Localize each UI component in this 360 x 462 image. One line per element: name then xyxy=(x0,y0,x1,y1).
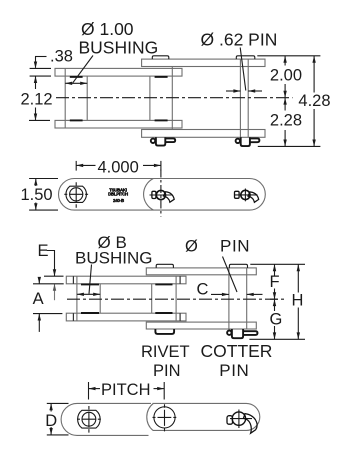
extension line plate top xyxy=(30,67,51,69)
svg-text:2.28: 2.28 xyxy=(270,111,302,129)
bushing B1 top bar xyxy=(155,283,172,285)
A lower arrow shaft xyxy=(38,314,40,332)
pin2 vertical crosshair xyxy=(164,404,166,431)
svg-text:4.000: 4.000 xyxy=(98,159,139,177)
pin3 vertical crosshair xyxy=(238,410,240,429)
svg-text:COTTER: COTTER xyxy=(201,341,273,361)
arrowhead pitch left xyxy=(89,387,96,390)
arrowhead 1.50 down xyxy=(34,203,37,210)
H lower shaft xyxy=(297,308,299,340)
E leader elbow xyxy=(47,251,55,257)
top extension line (pin top level) xyxy=(257,55,320,57)
dim line bushing diameter xyxy=(65,82,87,84)
centerline tick across F-G line xyxy=(270,298,278,300)
leader to bushing xyxy=(89,265,92,294)
top extension line (pin top level) xyxy=(250,263,305,265)
dim line 2.00 upper shaft xyxy=(284,56,286,66)
bushing B1 top bar xyxy=(155,76,168,78)
arrowhead H up xyxy=(297,264,300,271)
cotter pin under P2: pin end xyxy=(232,329,243,338)
svg-text:RIVET: RIVET xyxy=(141,343,190,361)
pin3 cotter circle xyxy=(232,412,245,425)
cotter pin under P1: pin end xyxy=(156,137,165,145)
svg-text:PITCH: PITCH xyxy=(101,381,151,399)
cotter pin under P1: leg xyxy=(165,138,175,142)
pin3 cotter bent leg xyxy=(248,192,259,202)
arrowhead bushing dia right xyxy=(80,82,87,85)
arrowhead .38 down xyxy=(34,62,37,69)
svg-text:PIN: PIN xyxy=(220,237,250,256)
pin3 cotter bent leg xyxy=(243,414,257,434)
outer plate end arc at P2 xyxy=(147,403,154,430)
arrowhead C right xyxy=(247,293,254,296)
arrowhead B dia right xyxy=(93,293,100,296)
dim pin diameter right arrow line xyxy=(248,90,262,92)
dim 2.12 upper arrow shaft xyxy=(35,76,37,89)
arrowhead A up xyxy=(38,314,41,321)
inner plate left end box bottom xyxy=(72,313,74,321)
ext line 1.50 bottom xyxy=(29,209,58,211)
pin3 horizontal crosshair xyxy=(234,194,258,196)
pitch dim line right seg xyxy=(143,164,161,166)
extension line plate bottom xyxy=(30,75,51,77)
D upper shaft xyxy=(50,403,52,411)
arrowhead pitch right xyxy=(154,164,161,167)
pitch dim line left seg xyxy=(89,388,101,390)
ext line D top xyxy=(47,402,69,404)
arrowhead 4.28 up xyxy=(312,56,315,63)
svg-text:C: C xyxy=(197,281,209,299)
pitch tick right xyxy=(163,382,165,400)
svg-text:4.28: 4.28 xyxy=(298,92,330,110)
arrowhead F down xyxy=(273,292,276,299)
arrowhead D down xyxy=(49,428,52,435)
roller R0 left edge xyxy=(64,68,66,128)
arrowhead G up xyxy=(273,299,276,306)
svg-text:A: A xyxy=(33,290,44,308)
arrowhead 2.28 up xyxy=(283,98,286,105)
bushing B1 bottom bar xyxy=(155,312,172,314)
cotter pin under P2: loop xyxy=(236,139,240,143)
pin2 cotter bent leg xyxy=(164,192,175,202)
pin P2 shaft left edge xyxy=(228,268,230,329)
inner link top plate xyxy=(66,276,186,284)
arrowhead F up xyxy=(273,264,276,271)
svg-text:DBLPITCH: DBLPITCH xyxy=(108,191,128,196)
bushing B0 bottom bar xyxy=(70,119,83,121)
bushing B1 left edge xyxy=(151,284,153,313)
dim line 2.28 lower shaft xyxy=(284,130,286,146)
pin2 centerline vertical xyxy=(160,170,162,217)
svg-text:2.12: 2.12 xyxy=(21,91,53,109)
pin1 flanged bushing outline xyxy=(66,186,86,202)
bushing B1 left edge xyxy=(149,76,151,120)
C right arrow line xyxy=(247,293,263,295)
pin P1 head tab xyxy=(152,56,169,59)
ext line D bottom xyxy=(47,434,69,436)
cotter pin under P2: loop xyxy=(227,331,231,335)
svg-text:F: F xyxy=(270,273,280,291)
arrowhead pin dia left xyxy=(233,89,240,92)
leader to pin xyxy=(240,48,246,91)
pin1 horizontal crosshair xyxy=(77,418,101,420)
bushing B0 bottom bar xyxy=(81,312,99,314)
pin3 horizontal crosshair xyxy=(230,418,252,420)
leader to pin xyxy=(223,257,238,293)
roller R1 right edge xyxy=(175,276,177,321)
cotter pin under P2: pin end xyxy=(241,137,250,146)
outer link top plate xyxy=(142,59,265,66)
svg-text:G: G xyxy=(270,311,283,329)
centerline of top view xyxy=(56,97,293,99)
pitch tick left xyxy=(75,161,77,171)
dim line 2.00 lower shaft xyxy=(284,84,286,98)
inner plate left end box top xyxy=(72,276,74,284)
pin P2 shaft right edge xyxy=(247,59,249,137)
pitch tick left xyxy=(88,382,90,400)
link plate outline xyxy=(59,179,266,211)
extension line lower plate top xyxy=(29,119,50,121)
inner link bottom plate xyxy=(66,313,186,321)
pin1 vertical crosshair xyxy=(88,406,90,433)
svg-text:BUSHING: BUSHING xyxy=(79,37,159,57)
dim 1.50 upper shaft xyxy=(35,179,37,187)
G lower shaft xyxy=(274,326,276,339)
leader to bushing xyxy=(73,56,93,83)
pin3 cotter circle xyxy=(241,190,250,199)
C left arrow line xyxy=(211,293,229,295)
arrowhead pitch right xyxy=(157,387,164,390)
svg-text:Ø .62 PIN: Ø .62 PIN xyxy=(201,29,278,49)
pin P2 head tab xyxy=(236,56,255,59)
arrowhead 1.50 up xyxy=(34,179,37,186)
arrowhead B dia left xyxy=(77,293,84,296)
dim .38 arrow shaft xyxy=(35,57,37,68)
pin2 cotter head rect xyxy=(152,191,156,198)
bushing B0 right edge xyxy=(86,76,88,120)
pin1 vertical crosshair xyxy=(75,182,77,207)
arrowhead 2.28 down xyxy=(283,140,286,147)
inner link bottom plate xyxy=(55,120,182,128)
cotter pin under P1: loop xyxy=(151,139,155,143)
dim 1.50 lower shaft xyxy=(35,203,37,211)
bushing B0 top bar xyxy=(81,283,99,285)
arrowhead E up xyxy=(53,284,56,291)
pitch tick right xyxy=(160,161,162,171)
centerline of bottom side view xyxy=(67,298,284,300)
arrowhead 4.28 down xyxy=(312,140,315,147)
cotter pin under P2: leg xyxy=(243,331,257,335)
E upper arrow shaft xyxy=(54,256,56,276)
pin P2 shaft left edge xyxy=(239,59,241,137)
bushing B1 bottom bar xyxy=(155,119,168,121)
rivet pin end under P1 xyxy=(155,329,174,334)
outer plate outline xyxy=(153,403,260,430)
pin1 circle xyxy=(70,188,83,201)
arrowhead D up xyxy=(49,403,52,410)
ext line plate top xyxy=(44,275,64,277)
ext line lower plate top xyxy=(33,313,62,315)
pin P1 head tab xyxy=(156,264,173,268)
pin1 flanged bushing outline xyxy=(78,410,101,428)
outer plate end arc at P2 xyxy=(144,179,154,211)
arrowhead H down xyxy=(297,332,300,339)
dim line 4.28 upper shaft xyxy=(313,56,315,93)
arrowhead pin dia right xyxy=(248,89,255,92)
bottom extension line (cotter level) xyxy=(258,145,321,147)
svg-text:PIN: PIN xyxy=(153,362,181,380)
ext line plate bottom xyxy=(33,283,64,285)
arrowhead C left xyxy=(222,293,229,296)
bottom extension line (cotter level) xyxy=(249,338,305,340)
cotter pin under P2: leg xyxy=(250,138,260,142)
F lower shaft xyxy=(274,289,276,300)
arrowhead 2.12 down xyxy=(34,114,37,121)
dim pin diameter left arrow line xyxy=(226,90,240,92)
bushing B0 right edge xyxy=(99,284,101,313)
svg-text:1.50: 1.50 xyxy=(21,186,53,204)
pin2 circle xyxy=(154,407,175,428)
pin1 horizontal crosshair xyxy=(64,193,88,195)
G upper shaft xyxy=(274,299,276,311)
A upper arrow shaft xyxy=(38,277,40,284)
H upper shaft xyxy=(297,264,299,292)
inner plate right end box bottom xyxy=(179,313,181,321)
E lower arrow shaft xyxy=(54,284,56,300)
ext line 1.50 top xyxy=(29,178,58,180)
svg-text:Ø 1.00: Ø 1.00 xyxy=(81,19,134,39)
inner plate right end box top xyxy=(179,276,181,284)
arrowhead 2.00 up xyxy=(283,56,286,63)
pin2 cotter circle xyxy=(156,190,165,199)
pin2 horizontal crosshair xyxy=(153,416,177,418)
roller R0 left edge xyxy=(76,276,78,321)
pin P2 shaft right edge xyxy=(246,268,248,329)
svg-text:240-B: 240-B xyxy=(113,198,124,203)
svg-text:D: D xyxy=(45,412,57,430)
arrowhead pitch left xyxy=(76,164,83,167)
dim line 4.28 lower shaft xyxy=(313,109,315,146)
pin P2 head tab xyxy=(229,264,247,268)
outer link bottom plate xyxy=(146,322,256,329)
F upper shaft xyxy=(274,264,276,275)
outer link bottom plate xyxy=(142,130,265,138)
pin3 cotter head rect xyxy=(227,416,233,425)
arrowhead E down xyxy=(53,269,56,276)
pin1 circle xyxy=(82,412,96,426)
bushing B0 top bar xyxy=(70,76,83,78)
pin3 cotter head rect xyxy=(235,191,240,198)
arrowhead G down xyxy=(273,332,276,339)
outer link top plate xyxy=(146,268,256,275)
svg-text:2.00: 2.00 xyxy=(270,67,302,85)
pin3 vertical crosshair xyxy=(244,189,246,202)
arrowhead A down xyxy=(38,277,41,284)
arrowhead 2.00 down xyxy=(283,91,286,98)
svg-text:BUSHING: BUSHING xyxy=(75,248,152,267)
arrowhead 2.12 up xyxy=(34,76,37,83)
D lower shaft xyxy=(50,427,52,435)
pitch dim line right seg xyxy=(154,388,165,390)
dim .38 bracket bar xyxy=(35,56,47,58)
svg-text:.38: .38 xyxy=(50,48,73,66)
dim 2.12 lower arrow shaft xyxy=(35,108,37,121)
roller R1 right edge xyxy=(171,67,173,130)
svg-text:Ø: Ø xyxy=(185,238,198,256)
arrowhead bushing dia left xyxy=(65,82,72,85)
pin2 horizontal crosshair xyxy=(150,194,173,196)
dim line 2.28 upper shaft xyxy=(284,98,286,111)
dim line bushing B diameter xyxy=(77,293,100,295)
inner plate outline xyxy=(61,403,151,435)
inner link top plate xyxy=(55,68,182,76)
svg-text:E: E xyxy=(38,242,49,260)
svg-text:H: H xyxy=(292,292,304,310)
svg-text:PIN: PIN xyxy=(219,361,249,380)
pitch dim line left seg xyxy=(76,164,95,166)
